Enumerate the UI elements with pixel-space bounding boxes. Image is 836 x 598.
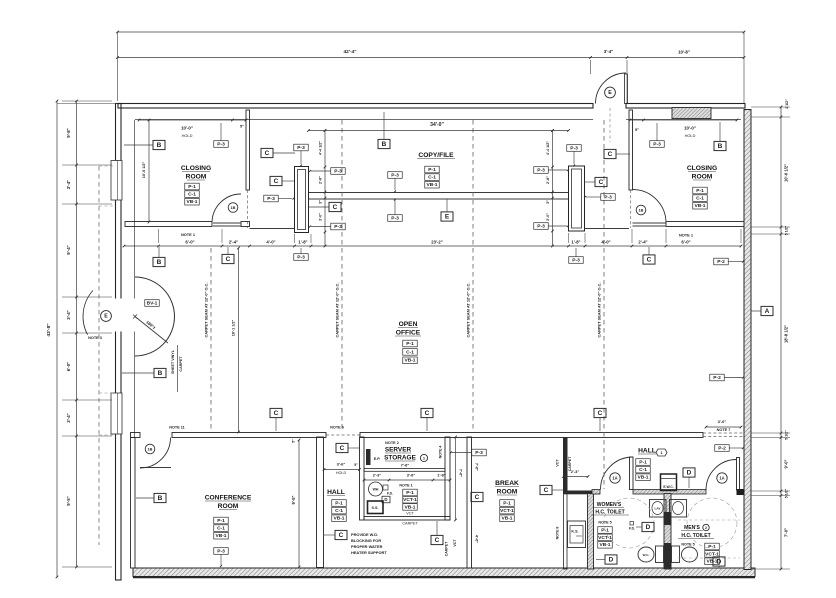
door 1A right circle tag — [717, 473, 727, 483]
svg-text:P-1: P-1 — [428, 167, 436, 173]
wall: hall south hatched seg 2 — [633, 490, 706, 495]
room label: conference room — [205, 495, 252, 511]
svg-text:2 1/2": 2 1/2" — [785, 99, 789, 109]
svg-text:CLOSING: CLOSING — [687, 165, 717, 172]
door 1B right closing circle tag — [636, 205, 646, 215]
dim: sink niche 2-3 — [562, 469, 589, 478]
svg-text:3'-0": 3'-0" — [319, 213, 323, 221]
svg-text:D: D — [609, 557, 614, 564]
svg-text:STORAGE: STORAGE — [384, 455, 416, 462]
svg-text:NOTE 1: NOTE 1 — [181, 232, 196, 237]
svg-text:7'-6": 7'-6" — [475, 463, 479, 471]
tag C open office row 3 — [594, 408, 606, 417]
svg-text:P-3: P-3 — [391, 215, 399, 221]
svg-text:4'-4 1/2": 4'-4 1/2" — [546, 141, 550, 155]
door 1B left closing circle tag — [228, 203, 238, 213]
tag P-3 below right cabinet — [569, 257, 584, 264]
dashed jog 1 — [99, 165, 113, 167]
tag B copy/file — [378, 139, 390, 148]
finish tags hall right — [636, 459, 651, 466]
dim: band under closing rooms y246 — [123, 229, 743, 247]
tag P-3 right cabinet top — [567, 145, 582, 152]
svg-text:5": 5" — [354, 463, 358, 467]
floor drain womens — [629, 522, 635, 531]
dim: left inner segmented — [57, 100, 118, 569]
finish tags right closing — [693, 187, 708, 194]
svg-text:CLOSING: CLOSING — [181, 165, 211, 172]
interior face line under top wall (left span) — [135, 119, 593, 121]
svg-text:NOTE 5: NOTE 5 — [598, 521, 611, 525]
svg-text:2'-3": 2'-3" — [571, 469, 580, 474]
svg-text:C-1: C-1 — [217, 526, 225, 532]
wall: top exterior left of door E — [118, 104, 593, 109]
svg-text:NOTE 6: NOTE 6 — [330, 426, 344, 430]
tag P-3 right cab right — [601, 194, 616, 201]
svg-text:3'-6": 3'-6" — [407, 473, 416, 478]
svg-text:1A: 1A — [719, 476, 724, 481]
svg-text:B: B — [158, 370, 163, 377]
svg-text:P-3: P-3 — [475, 450, 483, 456]
hatched block on top wall — [672, 108, 711, 119]
svg-text:E: E — [608, 90, 612, 96]
tag P-2 right wall mid — [710, 374, 725, 381]
svg-text:NOTE 3: NOTE 3 — [88, 336, 102, 340]
tag P-3 right cab left lower — [534, 223, 549, 230]
svg-text:3'-4": 3'-4" — [66, 413, 71, 422]
svg-text:NOTE 8: NOTE 8 — [556, 527, 560, 540]
svg-text:10'-0 1/2": 10'-0 1/2" — [784, 164, 789, 182]
svg-text:VB-1: VB-1 — [694, 203, 705, 209]
door 1B left closing room — [212, 194, 241, 226]
svg-text:P-2: P-2 — [717, 259, 725, 265]
svg-text:P-3: P-3 — [653, 141, 661, 147]
room label: left closing room — [181, 165, 211, 181]
svg-text:C: C — [598, 410, 603, 417]
dim: right margin line — [751, 106, 790, 571]
room label: open office — [395, 321, 421, 337]
dashed jog 3 — [99, 392, 113, 394]
tag B under left closing — [153, 257, 165, 266]
carpet seam 2 — [341, 120, 343, 432]
finish tags copy/file — [425, 166, 440, 173]
svg-text:OFFICE: OFFICE — [396, 330, 421, 337]
svg-text:ROOM: ROOM — [218, 503, 239, 510]
svg-text:3'-0": 3'-0" — [546, 213, 550, 221]
door E opening in left wall (white gap) — [114, 299, 123, 332]
tag C server — [336, 443, 348, 452]
dashed jog 2 — [99, 205, 113, 207]
dashed opening at hall entry — [326, 434, 360, 436]
svg-text:D: D — [384, 497, 387, 502]
wall: right closing room south wall — [666, 222, 744, 227]
svg-text:P-1: P-1 — [696, 188, 704, 194]
svg-text:WH: WH — [373, 488, 379, 492]
svg-text:VB-1: VB-1 — [404, 504, 415, 510]
D tag closet — [382, 496, 390, 503]
finish tags womens — [598, 527, 613, 534]
finish tags mens — [705, 543, 720, 550]
wall: main corridor wall segment A — [131, 433, 141, 438]
svg-text:1'-8": 1'-8" — [298, 240, 307, 245]
counter between cabinets — [309, 193, 569, 200]
tag B left closing — [153, 140, 165, 149]
door 1A hall right — [706, 458, 740, 491]
svg-text:5": 5" — [240, 124, 244, 129]
door 1B conference circle tag — [145, 444, 155, 454]
svg-text:1A: 1A — [612, 476, 617, 481]
svg-text:C: C — [226, 256, 231, 263]
svg-text:B: B — [158, 495, 163, 502]
dim: conference depth 9-5 — [291, 439, 300, 569]
svg-text:P-1: P-1 — [217, 518, 225, 524]
dashed continuation right closing west wall — [630, 190, 632, 228]
tag B left wall mid — [154, 368, 166, 377]
cabinet right (tall storage) — [569, 166, 585, 231]
svg-text:3'-4": 3'-4" — [66, 310, 71, 319]
svg-text:NOTE 1: NOTE 1 — [679, 233, 694, 238]
svg-text:HOLD: HOLD — [182, 133, 193, 138]
svg-text:NOTE 1: NOTE 1 — [399, 484, 412, 488]
svg-text:3": 3" — [319, 200, 323, 204]
svg-text:P-3: P-3 — [537, 167, 545, 173]
svg-text:4'-0": 4'-0" — [601, 240, 610, 245]
svg-text:CARPET: CARPET — [568, 456, 572, 471]
electrical panel EP — [366, 449, 380, 465]
finish tags open office — [403, 340, 418, 347]
svg-text:VCT-1: VCT-1 — [403, 497, 417, 503]
svg-text:2: 2 — [705, 526, 707, 530]
svg-text:C-1: C-1 — [406, 349, 414, 355]
wall: toilet partition dark lower — [664, 543, 672, 569]
svg-text:P-3: P-3 — [297, 145, 305, 151]
carpet seam 3 — [472, 120, 474, 432]
svg-text:P-3: P-3 — [334, 224, 342, 230]
svg-text:3'-4": 3'-4" — [66, 180, 71, 189]
svg-text:C: C — [435, 537, 440, 544]
dim: closet widths — [363, 473, 452, 482]
tag P-3 left cabinet top — [294, 144, 309, 151]
tag E counter — [441, 212, 453, 221]
svg-text:P-1: P-1 — [335, 500, 343, 506]
svg-text:P-1: P-1 — [708, 544, 716, 550]
svg-text:P-1: P-1 — [503, 500, 511, 506]
svg-text:ROOM: ROOM — [692, 174, 713, 181]
wall: main corridor wall segment C — [360, 433, 703, 438]
svg-text:VCT-1: VCT-1 — [598, 535, 612, 541]
wall: niche west thin — [564, 494, 568, 570]
wall: closet south wall — [364, 517, 450, 521]
svg-text:4'-0": 4'-0" — [266, 240, 275, 245]
svg-text:B: B — [157, 259, 162, 266]
svg-text:6'-0": 6'-0" — [681, 240, 690, 245]
svg-text:W.C.: W.C. — [643, 553, 650, 557]
svg-text:B: B — [157, 142, 162, 149]
svg-text:CARPET SEAM AT 12'-0" O.C.: CARPET SEAM AT 12'-0" O.C. — [597, 282, 602, 337]
tag D mens lower — [713, 557, 725, 566]
svg-text:S.S.: S.S. — [372, 506, 379, 510]
svg-text:F.D.: F.D. — [629, 527, 635, 531]
svg-text:OPEN: OPEN — [399, 321, 418, 328]
svg-text:6'-0": 6'-0" — [66, 362, 71, 371]
door 1A left circle tag — [610, 473, 620, 483]
svg-text:C: C — [265, 150, 270, 157]
counter return left niche — [250, 228, 295, 230]
svg-text:C-1: C-1 — [696, 196, 704, 202]
tag C left cabinet — [270, 176, 282, 185]
svg-text:BV-1: BV-1 — [147, 300, 158, 306]
svg-text:VB-1: VB-1 — [186, 199, 197, 205]
svg-text:HEATER SUPPORT: HEATER SUPPORT — [351, 550, 387, 555]
tag C under left closing — [222, 254, 234, 263]
water heater note text — [351, 532, 387, 555]
svg-text:7'-6": 7'-6" — [459, 469, 463, 477]
tag P-3 left cab right lower — [331, 223, 346, 230]
svg-text:P-1: P-1 — [188, 184, 196, 190]
wall: bottom exterior heavy bottom line — [133, 577, 755, 579]
svg-text:PROVIDE W.D.: PROVIDE W.D. — [351, 532, 378, 537]
wall: conference west wall — [131, 438, 136, 569]
svg-text:HALL: HALL — [327, 489, 345, 496]
svg-text:VB-1: VB-1 — [599, 542, 610, 548]
svg-text:H.C. TOILET: H.C. TOILET — [595, 510, 625, 516]
key tag A — [761, 306, 773, 315]
wall: server storage west wall — [360, 437, 365, 520]
dim: left cabinet vertical — [324, 129, 327, 247]
svg-text:3'-4": 3'-4" — [604, 49, 613, 54]
svg-text:F.D.: F.D. — [387, 492, 393, 496]
wall: left exterior — [116, 104, 122, 581]
wall: hall south hatched seg 1 — [592, 490, 600, 495]
dim: hall width 3-6 hold — [323, 462, 361, 476]
tag B conference — [154, 493, 166, 502]
tag B right closing — [714, 141, 726, 150]
door 1B conference room — [140, 438, 171, 469]
svg-text:VCT: VCT — [453, 539, 457, 547]
svg-text:K.S.: K.S. — [571, 530, 578, 534]
svg-text:10'-8": 10'-8" — [678, 50, 690, 55]
dim: right hall 3-6 note 7 — [705, 419, 743, 432]
svg-text:C-1: C-1 — [639, 467, 647, 473]
finish tags conference — [214, 517, 229, 524]
tag P-3 right closing — [650, 141, 665, 148]
svg-text:P-3: P-3 — [604, 194, 612, 200]
tag P-3 counter above — [388, 172, 403, 179]
tag P-3 below left cabinet — [294, 254, 309, 261]
tag P-3 left cab right upper — [331, 168, 346, 175]
svg-text:PROPER WATER: PROPER WATER — [351, 544, 383, 549]
tag P-3 break — [472, 449, 487, 456]
svg-text:10'-0 1/2": 10'-0 1/2" — [142, 162, 146, 179]
svg-text:NOTE 2: NOTE 2 — [385, 441, 399, 445]
window: left wall upper storefront — [111, 161, 122, 201]
interior face line left wall upper — [134, 120, 136, 299]
svg-text:1B: 1B — [231, 205, 236, 210]
svg-text:2'-4": 2'-4" — [229, 240, 238, 245]
tag P-3 right cab left upper — [534, 167, 549, 174]
svg-text:ROOM: ROOM — [186, 174, 207, 181]
finish tags hall left — [332, 500, 347, 507]
svg-text:43'-8": 43'-8" — [46, 323, 52, 336]
tag C open office row 1 — [270, 408, 282, 417]
svg-text:NOTE 7: NOTE 7 — [717, 428, 731, 432]
wall: server storage east wall — [445, 437, 450, 520]
svg-text:VB-1: VB-1 — [215, 533, 226, 539]
tag D womens — [642, 522, 654, 531]
svg-text:1B: 1B — [148, 447, 153, 452]
svg-text:VCT: VCT — [406, 512, 414, 516]
wall: hall south black stub — [737, 489, 745, 495]
wall: server/closet divider — [364, 469, 445, 472]
svg-text:P-1: P-1 — [406, 341, 414, 347]
tag C right cab — [595, 177, 607, 186]
door E circle tag — [101, 311, 112, 322]
door E in left exterior wall (180 deg swing) — [83, 277, 174, 356]
svg-text:C: C — [544, 487, 549, 494]
room label: right closing room — [687, 165, 717, 181]
svg-text:VB-1: VB-1 — [637, 475, 648, 481]
svg-text:C: C — [340, 445, 345, 452]
wall: left closing room south wall — [125, 222, 212, 227]
tag C open office row 2 — [421, 408, 433, 417]
svg-text:BLOCKING FOR: BLOCKING FOR — [351, 538, 381, 543]
cabinet left (tall storage) — [295, 167, 309, 233]
counter return right niche — [585, 228, 630, 230]
dim: left outer 43-8 — [46, 100, 58, 579]
svg-text:NOTE 5: NOTE 5 — [681, 543, 694, 547]
interior face line left wall lower — [134, 332, 136, 438]
svg-text:P-3: P-3 — [572, 257, 580, 263]
svg-text:B: B — [382, 141, 387, 148]
dim: left closing interior 10-0 1/2 — [142, 119, 150, 224]
svg-text:34'-0": 34'-0" — [430, 122, 444, 128]
svg-text:5 1/2": 5 1/2" — [785, 225, 789, 235]
wall: top exterior right of door E — [626, 104, 745, 109]
wall stub right of left closing door — [241, 222, 250, 227]
svg-text:C: C — [274, 178, 279, 185]
water closet mens — [672, 546, 698, 563]
mop sink SS — [368, 501, 384, 514]
wall: niche north dark — [563, 491, 600, 495]
dashed wall near right exterior — [703, 432, 744, 434]
svg-text:VB-1: VB-1 — [501, 516, 512, 522]
svg-text:3": 3" — [546, 200, 550, 204]
svg-text:SERVER: SERVER — [385, 447, 412, 454]
dashed awning line left — [98, 166, 100, 545]
svg-text:9'-5": 9'-5" — [291, 496, 296, 505]
svg-text:VCT: VCT — [556, 459, 560, 467]
svg-text:A: A — [765, 308, 770, 315]
svg-text:D: D — [646, 524, 651, 531]
svg-text:9'-0": 9'-0" — [784, 460, 789, 469]
svg-text:MEN'S: MEN'S — [684, 525, 700, 531]
svg-text:E.W.C.: E.W.C. — [663, 485, 673, 489]
tag C break left — [471, 492, 483, 501]
svg-text:CARPET SEAM AT 12'-0" O.C.: CARPET SEAM AT 12'-0" O.C. — [466, 282, 471, 337]
closet finish tags — [399, 484, 418, 526]
svg-text:P-2: P-2 — [718, 445, 726, 451]
svg-text:9'-8": 9'-8" — [66, 128, 71, 137]
tag D hall — [683, 468, 695, 477]
wall: right exterior hatched band — [744, 110, 751, 570]
tag P-2 hall right — [715, 445, 730, 452]
svg-text:P-3: P-3 — [570, 145, 578, 151]
svg-text:E.P.: E.P. — [374, 457, 380, 461]
dashed jog 4 — [99, 434, 113, 436]
tag C left cab right — [329, 202, 341, 211]
dim: left closing 10-0 hold — [138, 119, 248, 138]
turning circle womens — [604, 498, 654, 548]
svg-text:BREAK: BREAK — [495, 480, 519, 487]
wall: womens toilet west wall hatched — [588, 494, 594, 570]
svg-text:P-3: P-3 — [297, 254, 305, 260]
svg-text:2'-8": 2'-8" — [546, 176, 550, 184]
svg-text:VCT-1: VCT-1 — [500, 508, 514, 514]
EWC water cooler — [661, 474, 677, 491]
kitchen sink KS — [568, 521, 586, 548]
svg-text:E: E — [104, 314, 108, 320]
dim: right cabinet vertical — [551, 129, 554, 247]
svg-text:CARPET: CARPET — [445, 541, 449, 556]
svg-text:HALL: HALL — [638, 448, 656, 455]
svg-text:1'-8": 1'-8" — [437, 473, 446, 478]
svg-text:1'-8": 1'-8" — [571, 240, 580, 245]
wall: bottom exterior hatched band — [133, 568, 755, 577]
carpet seam 4 — [603, 120, 605, 489]
dashed clearance mens — [678, 519, 740, 521]
svg-text:P-2: P-2 — [713, 375, 721, 381]
svg-text:CARPET SEAM AT 12'-0" O.C.: CARPET SEAM AT 12'-0" O.C. — [204, 282, 209, 337]
svg-text:C: C — [599, 179, 604, 186]
wall: right closing room west wall — [629, 110, 633, 190]
svg-text:C: C — [333, 204, 338, 211]
room label: hall left — [327, 489, 345, 496]
svg-text:VB-1: VB-1 — [333, 516, 344, 522]
room label: womens hc toilet — [591, 502, 629, 525]
dashed continuation left closing east wall — [247, 190, 249, 228]
svg-text:HOLD: HOLD — [336, 471, 347, 475]
sheet vinyl divider — [177, 345, 179, 392]
svg-text:4'-4 1/2": 4'-4 1/2" — [319, 141, 323, 155]
svg-text:C: C — [647, 257, 652, 264]
svg-text:C: C — [274, 410, 279, 417]
wall: toilet center partition hatched — [664, 494, 671, 570]
svg-text:P-3: P-3 — [217, 141, 225, 147]
dim: top inner line 42-4 / 3-4 / 10-8 — [116, 49, 745, 103]
svg-text:P-3: P-3 — [391, 172, 399, 178]
svg-text:COPY/FILE: COPY/FILE — [418, 152, 454, 159]
svg-text:18'-1 1/2": 18'-1 1/2" — [232, 320, 236, 337]
svg-text:D: D — [717, 559, 722, 566]
room label: server storage — [384, 441, 427, 468]
tag C below closet — [431, 535, 443, 544]
water heater WH — [369, 482, 394, 496]
svg-text:C: C — [475, 494, 480, 501]
wall: break room east upper dark — [563, 437, 568, 494]
svg-text:10'-0": 10'-0" — [684, 126, 696, 131]
svg-text:18'-8 1/2": 18'-8 1/2" — [784, 325, 789, 343]
wall: break room west wall — [467, 437, 472, 568]
svg-text:P-3: P-3 — [267, 196, 275, 202]
svg-text:5": 5" — [635, 127, 639, 132]
svg-text:E: E — [445, 214, 450, 221]
svg-text:H.C. TOILET: H.C. TOILET — [681, 533, 711, 539]
svg-text:CARPET: CARPET — [402, 522, 418, 526]
svg-text:5 1/2": 5 1/2" — [785, 488, 789, 498]
svg-text:C: C — [339, 532, 344, 539]
svg-text:2'-8": 2'-8" — [319, 176, 323, 184]
wall: left closing room east wall — [246, 110, 250, 190]
svg-text:C-1: C-1 — [335, 508, 343, 514]
